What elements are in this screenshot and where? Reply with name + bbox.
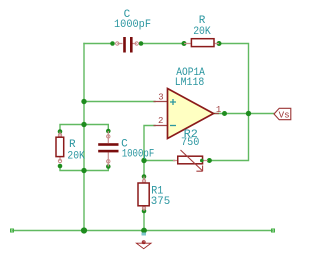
svg-text:20K: 20K (193, 26, 211, 38)
svg-text:LM118: LM118 (175, 77, 205, 89)
svg-text:750: 750 (181, 137, 199, 149)
svg-text:R: R (69, 139, 76, 151)
svg-text:375: 375 (151, 196, 170, 208)
svg-text:1000pF: 1000pF (122, 149, 155, 161)
svg-text:20K: 20K (67, 150, 85, 162)
svg-text:1: 1 (216, 105, 221, 115)
svg-text:3: 3 (158, 93, 163, 103)
svg-text:1000pF: 1000pF (114, 19, 151, 31)
svg-text:Vs: Vs (279, 109, 290, 120)
svg-text:2: 2 (158, 116, 163, 126)
